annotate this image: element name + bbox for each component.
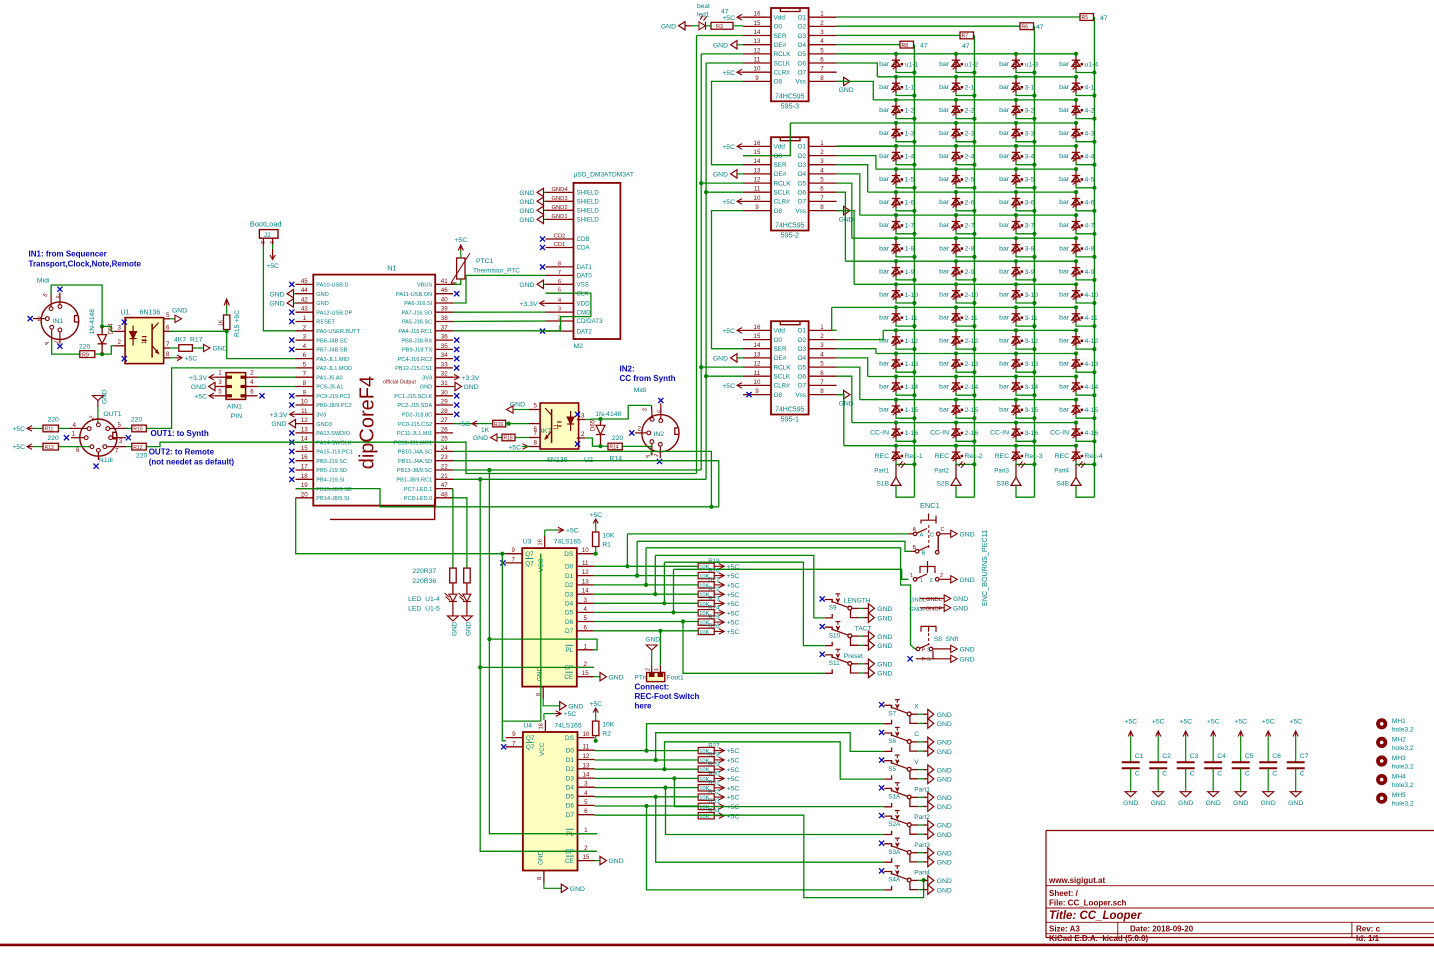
+5C label U2 pin8 [508, 444, 529, 452]
svg-text:28: 28 [441, 408, 448, 415]
resistor R14 220 [601, 435, 652, 462]
svg-text:PA14-SWCLK: PA14-SWCLK [316, 440, 351, 446]
svg-text:3-15: 3-15 [1025, 407, 1039, 414]
svg-text:+5C: +5C [722, 144, 735, 151]
svg-text:GND: GND [877, 615, 892, 622]
svg-text:48: 48 [441, 491, 448, 498]
svg-text:GND: GND [713, 356, 728, 363]
svg-text:R5: R5 [1082, 15, 1089, 21]
svg-text:O2: O2 [797, 153, 806, 160]
svg-text:5: 5 [303, 361, 307, 368]
svg-text:2-15: 2-15 [965, 407, 979, 414]
svg-text:+5C: +5C [194, 393, 207, 400]
wire O7 595-2 to row 10 [837, 211, 855, 285]
label GNDP ENC1 [909, 604, 968, 613]
svg-text:47: 47 [1100, 15, 1108, 22]
LED 3-8 [999, 236, 1036, 259]
switch S1A Part1 [879, 783, 952, 812]
svg-text:GND: GND [519, 208, 534, 215]
no-connect IN1 pin3 [57, 287, 62, 292]
svg-text:PB5-J19.SD: PB5-J19.SD [316, 468, 347, 474]
svg-text:GND: GND [316, 301, 328, 307]
svg-text:CE: CE [565, 858, 574, 865]
svg-text:GND: GND [519, 190, 534, 197]
svg-text:2-1: 2-1 [965, 84, 975, 91]
LED 2-5 [939, 167, 976, 190]
svg-text:+3.3V: +3.3V [462, 375, 480, 382]
connector IN1 MIDI DIN [33, 278, 79, 348]
wire U3 D4 stair up [662, 562, 666, 605]
svg-text:bar: bar [1059, 384, 1070, 391]
svg-text:Thermistor_PTC: Thermistor_PTC [473, 268, 520, 275]
svg-text:O4: O4 [797, 355, 806, 362]
wire U4 D5 [595, 796, 699, 798]
svg-text:29: 29 [441, 399, 448, 406]
svg-text:C7: C7 [1300, 753, 1309, 760]
svg-text:+5C: +5C [1152, 719, 1165, 726]
no-connect AIN1 pin6 [259, 393, 264, 398]
LED U1-4 [408, 583, 457, 616]
svg-text:bar: bar [939, 361, 950, 368]
svg-text:7: 7 [820, 195, 824, 202]
svg-text:bar: bar [999, 338, 1010, 345]
wire bus CP nets [478, 477, 597, 851]
svg-text:+5C: +5C [727, 795, 740, 802]
svg-text:13: 13 [301, 426, 308, 433]
svg-text:O6: O6 [797, 190, 806, 197]
capacitor C5 [1232, 719, 1254, 808]
svg-text:SHIELD: SHIELD [577, 208, 600, 215]
svg-text:35: 35 [441, 343, 448, 350]
svg-text:Q7: Q7 [525, 551, 534, 558]
svg-text:bar: bar [879, 291, 890, 298]
svg-text:15: 15 [301, 445, 308, 452]
svg-text:15: 15 [754, 333, 761, 340]
svg-text:3: 3 [820, 29, 824, 36]
svg-text:C: C [930, 533, 934, 539]
svg-text:GND: GND [877, 671, 892, 678]
svg-text:GND: GND [960, 656, 975, 663]
svg-text:bar: bar [1059, 245, 1070, 252]
svg-text:15: 15 [754, 20, 761, 27]
wire LED row 17 [844, 445, 1076, 447]
+5C label U3 VCC [545, 527, 579, 536]
svg-text:O1: O1 [797, 144, 806, 151]
svg-text:PB1-J8/9.RC1: PB1-J8/9.RC1 [396, 478, 432, 484]
resistor R13 220 [12, 435, 90, 451]
LED 2-4 [939, 144, 976, 167]
svg-text:O5: O5 [797, 364, 806, 371]
text note IN2 [620, 364, 676, 383]
svg-text:4-16: 4-16 [1085, 430, 1099, 437]
switch S6 C [879, 727, 952, 756]
svg-text:OE#: OE# [774, 42, 787, 49]
svg-text:ENC_BOURNS_PEC11: ENC_BOURNS_PEC11 [980, 530, 989, 606]
wire U3 CP attach [585, 666, 594, 668]
svg-text:6: 6 [166, 324, 170, 331]
svg-text:16: 16 [301, 454, 308, 461]
wire O5 595-2 to row 8 [837, 183, 852, 238]
svg-text:3: 3 [218, 379, 222, 386]
mounting hole MH2 [1376, 736, 1414, 752]
optocoupler U2 6N136 [529, 403, 593, 465]
svg-text:43: 43 [301, 306, 308, 313]
svg-text:S1A: S1A [888, 794, 901, 801]
svg-text:bar: bar [939, 176, 950, 183]
capacitor C6 [1259, 719, 1281, 808]
svg-text:Part1: Part1 [874, 467, 889, 474]
svg-text:PA4-J16.RC1: PA4-J16.RC1 [398, 329, 432, 335]
svg-text:D4: D4 [565, 601, 574, 608]
LED 4-13 [1059, 351, 1098, 374]
svg-text:PC2-J15.SDA: PC2-J15.SDA [397, 403, 432, 409]
svg-text:7: 7 [511, 556, 515, 563]
GND label N1 pin42 [269, 299, 295, 308]
GND label Vss 595-1 [837, 390, 854, 407]
svg-text:CP: CP [564, 665, 573, 672]
svg-text:dipCoreF4: dipCoreF4 [356, 376, 378, 469]
svg-text:ENC1: ENC1 [920, 501, 940, 510]
svg-text:CP: CP [565, 849, 574, 856]
LED u1-4 [1059, 52, 1098, 75]
no-connect M2 DAT1 [540, 264, 545, 269]
svg-text:PB3-J19.SC: PB3-J19.SC [316, 459, 347, 465]
svg-text:GND: GND [937, 795, 952, 802]
wire RCLK bus [453, 54, 743, 472]
svg-text:1-14: 1-14 [905, 384, 919, 391]
svg-text:47: 47 [721, 9, 729, 16]
GND label Vss 595-3 [837, 77, 854, 94]
svg-text:1-2: 1-2 [905, 107, 915, 114]
svg-text:6: 6 [820, 186, 824, 193]
wire LED row 12 [883, 329, 1076, 331]
svg-text:10K: 10K [602, 533, 615, 540]
svg-text:D5: D5 [566, 794, 575, 801]
LED 3-2 [999, 98, 1036, 121]
svg-text:DAT1: DAT1 [577, 264, 593, 271]
LED 1-9 [879, 259, 916, 282]
svg-text:hole3,2: hole3,2 [1392, 745, 1414, 752]
svg-text:220: 220 [48, 416, 60, 423]
svg-text:O7: O7 [797, 70, 806, 77]
LED 3-14 [999, 374, 1038, 397]
svg-text:RCLK: RCLK [774, 364, 792, 371]
svg-text:2: 2 [37, 316, 41, 323]
svg-text:D5: D5 [565, 610, 574, 617]
svg-text:1: 1 [72, 431, 76, 438]
svg-text:2-7: 2-7 [965, 223, 975, 230]
switch S11 Preset [820, 649, 893, 678]
wire U3 D6 [594, 621, 698, 623]
svg-text:595-3: 595-3 [781, 102, 799, 111]
svg-text:2: 2 [581, 431, 585, 438]
label ENC1 [920, 501, 940, 510]
svg-text:GND: GND [465, 621, 472, 636]
svg-text:+5C: +5C [1124, 719, 1137, 726]
wire M2 CD/DAT3 to N1 PA5 [453, 320, 546, 323]
wire M2 CMD to N1 PA7 [453, 311, 546, 313]
svg-text:BootLoad: BootLoad [250, 220, 282, 229]
LED 2-6 [939, 190, 976, 213]
wire IN1 pin4 to R9 [52, 341, 80, 355]
LED 4-11 [1059, 305, 1098, 328]
svg-text:+5C: +5C [727, 629, 740, 636]
GND label AIN1 pin3 [191, 382, 215, 391]
no-connect M2 DAT2 [540, 329, 545, 334]
resistor R17 4K7 [170, 337, 204, 352]
svg-text:hole3,2: hole3,2 [1392, 764, 1414, 771]
svg-text:4-14: 4-14 [1085, 384, 1099, 391]
svg-text:220: 220 [612, 435, 624, 442]
svg-text:16: 16 [538, 723, 544, 729]
svg-text:OE#: OE# [774, 355, 787, 362]
svg-text:GND: GND [877, 606, 892, 613]
svg-text:R16: R16 [494, 422, 503, 428]
svg-text:1: 1 [820, 140, 824, 147]
LED 4-9 [1059, 259, 1096, 282]
svg-text:VSS: VSS [577, 282, 589, 289]
svg-text:VCC: VCC [538, 558, 545, 572]
svg-text:bar: bar [939, 314, 950, 321]
svg-text:PC10-J31.MO1: PC10-J31.MO1 [394, 440, 433, 446]
svg-text:bar: bar [939, 199, 950, 206]
svg-text:10: 10 [582, 547, 589, 554]
svg-text:10: 10 [301, 399, 308, 406]
svg-text:U3: U3 [523, 539, 532, 546]
GND label led1 [661, 22, 692, 31]
svg-text:Vdd: Vdd [774, 144, 786, 151]
svg-text:2-10: 2-10 [965, 292, 979, 299]
wire O6 595-2 to row 9 [837, 192, 846, 261]
svg-text:SHIELD: SHIELD [577, 217, 600, 224]
LED 1-14 [879, 374, 918, 397]
svg-text:3-3: 3-3 [1025, 130, 1035, 137]
svg-text:DS: DS [564, 551, 573, 558]
wire U3 D3 [594, 593, 698, 595]
svg-text:5: 5 [166, 312, 170, 319]
svg-text:O0: O0 [774, 153, 783, 160]
svg-text:GND3: GND3 [551, 196, 567, 202]
svg-text:S10: S10 [829, 632, 841, 639]
wire D64 to U1 pin3 [102, 326, 114, 331]
svg-text:C: C [1272, 771, 1277, 778]
svg-text:PA11-USB.ON: PA11-USB.ON [396, 292, 432, 298]
LED 4-15 [1059, 398, 1098, 421]
wire LED row 9 [845, 260, 1076, 262]
wire O7 595-3 to row 2 [837, 81, 874, 100]
svg-text:PA6-J16.SI: PA6-J16.SI [404, 301, 432, 307]
wire U4 D4 [595, 787, 699, 789]
svg-text:Rec-2: Rec-2 [965, 453, 983, 460]
svg-text:bar: bar [879, 222, 890, 229]
svg-text:14: 14 [754, 342, 761, 349]
LED 3-1 [999, 75, 1036, 98]
svg-text:C6: C6 [1272, 753, 1281, 760]
svg-text:GND: GND [937, 721, 952, 728]
svg-text:16: 16 [754, 324, 761, 331]
svg-text:PIN: PIN [231, 413, 242, 420]
svg-text:LED U1-5: LED U1-5 [408, 606, 440, 613]
svg-text:S4B: S4B [1057, 480, 1070, 487]
wire S8 net [646, 548, 915, 649]
svg-text:GND: GND [937, 740, 952, 747]
wire U4 D4 to S2A [663, 786, 884, 835]
wire ENC B net [637, 541, 910, 551]
resistor R1 10K [589, 512, 614, 556]
svg-text:R14: R14 [610, 456, 623, 463]
connector AIN1 PIN [215, 370, 258, 420]
svg-text:SER: SER [774, 33, 788, 40]
svg-text:PA12-USB.DP: PA12-USB.DP [316, 310, 352, 316]
svg-text:12: 12 [582, 569, 589, 576]
svg-text:S2A: S2A [888, 821, 901, 828]
svg-text:D6: D6 [565, 619, 574, 626]
svg-text:GND: GND [519, 282, 534, 289]
svg-text:SER: SER [774, 162, 788, 169]
svg-text:bar: bar [999, 222, 1010, 229]
svg-text:bar: bar [879, 245, 890, 252]
svg-text:O1: O1 [797, 15, 806, 22]
svg-text:REC: REC [995, 453, 1009, 460]
svg-text:Title: CC_Looper: Title: CC_Looper [1049, 910, 1142, 922]
svg-text:+5C: +5C [727, 748, 740, 755]
svg-text:+5C: +5C [727, 573, 740, 580]
LED 4-12 [1059, 328, 1098, 351]
+5C label CLR# 595-2 [722, 199, 743, 206]
svg-text:12: 12 [301, 417, 308, 424]
wire U4 DS [595, 740, 596, 742]
svg-text:6: 6 [583, 624, 587, 631]
svg-text:4-9: 4-9 [1085, 269, 1095, 276]
svg-text:+5C: +5C [1234, 719, 1247, 726]
wire M2 DAT0 to N1 PA6 [453, 275, 546, 303]
wire O7 595-1 to REC row [837, 395, 844, 446]
svg-text:bar: bar [879, 361, 890, 368]
svg-text:CE: CE [564, 674, 573, 681]
svg-text:4-1: 4-1 [1085, 84, 1095, 91]
wire U3 D0 stair up [625, 534, 629, 569]
svg-text:hole3,2: hole3,2 [1392, 782, 1414, 789]
svg-text:X: X [914, 703, 919, 710]
svg-text:9: 9 [303, 389, 307, 396]
svg-text:GND: GND [519, 217, 534, 224]
svg-text:9: 9 [755, 388, 759, 395]
svg-text:bar: bar [999, 84, 1010, 91]
svg-text:+5C: +5C [727, 813, 740, 820]
svg-text:RCLK: RCLK [774, 51, 792, 58]
svg-text:bar: bar [1059, 176, 1070, 183]
svg-text:4: 4 [583, 606, 587, 613]
svg-text:6: 6 [820, 57, 824, 64]
svg-text:74LS165: 74LS165 [554, 723, 581, 730]
svg-text:GND: GND [1151, 800, 1166, 807]
svg-text:11: 11 [301, 408, 308, 415]
svg-text:S9: S9 [829, 605, 837, 612]
svg-text:4: 4 [250, 379, 254, 386]
GND label U2 pin5 [507, 402, 530, 414]
svg-text:O4: O4 [797, 42, 806, 49]
svg-text:GND: GND [937, 832, 952, 839]
svg-text:4-12: 4-12 [1085, 338, 1099, 345]
svg-text:O5: O5 [797, 180, 806, 187]
svg-text:14: 14 [582, 588, 589, 595]
svg-text:GND: GND [937, 887, 952, 894]
svg-text:bar: bar [879, 199, 890, 206]
svg-text:34: 34 [441, 352, 448, 359]
svg-text:S: S [927, 657, 931, 663]
svg-text:bar: bar [999, 291, 1010, 298]
svg-text:+5C: +5C [589, 701, 602, 708]
svg-text:31: 31 [441, 380, 448, 387]
svg-text:1: 1 [583, 643, 587, 650]
svg-text:1-1: 1-1 [905, 84, 915, 91]
wire vertical through U3 [540, 554, 542, 721]
svg-text:U4: U4 [523, 723, 532, 730]
svg-text:R12: R12 [133, 445, 142, 451]
svg-text:LED U1-4: LED U1-4 [408, 596, 440, 603]
svg-text:R7: R7 [962, 34, 969, 40]
svg-text:bar: bar [999, 176, 1010, 183]
wire U2 pin3 to D65 [585, 418, 600, 421]
wire O6 595-3 to row 1 [837, 63, 878, 77]
svg-text:Part2: Part2 [934, 467, 949, 474]
svg-text:µSD_DM3ATDM3AT: µSD_DM3ATDM3AT [574, 171, 634, 178]
svg-text:bar: bar [1059, 268, 1070, 275]
svg-text:GND: GND [473, 435, 488, 442]
thermistor PTC1 [451, 253, 520, 283]
svg-text:O3: O3 [797, 33, 806, 40]
svg-text:220: 220 [48, 435, 60, 442]
svg-text:Part3: Part3 [994, 467, 1009, 474]
wire U1 pin6 to N1 PA3 [170, 329, 296, 358]
svg-text:GND: GND [1123, 800, 1138, 807]
svg-text:MH5: MH5 [1392, 792, 1406, 799]
svg-text:Q7: Q7 [525, 560, 534, 567]
wire U3 D2 stair up [644, 548, 648, 587]
+5C label Vdd 595-2 [722, 144, 743, 151]
svg-text:P: P [922, 657, 926, 663]
svg-text:U1: U1 [121, 310, 130, 317]
LED 3-6 [999, 190, 1036, 213]
wire to U4 Q7 [502, 721, 506, 741]
+5C label CLR# 595-1 [722, 383, 743, 390]
LED u1-3 [999, 52, 1038, 75]
svg-text:R18: R18 [504, 436, 513, 442]
svg-text:4: 4 [303, 343, 307, 350]
svg-text:74HC595: 74HC595 [775, 93, 805, 100]
wire U4 D7 to Part4 net [698, 815, 926, 897]
svg-text:GND: GND [661, 23, 676, 30]
svg-text:46: 46 [441, 287, 448, 294]
LED 1-13 [879, 351, 918, 374]
wire LED row 15 [860, 399, 1076, 401]
LED 1-15 [879, 398, 918, 421]
svg-text:D2: D2 [565, 582, 574, 589]
switch S5 V [879, 755, 952, 784]
LED Rec-4 [1055, 444, 1103, 467]
mounting hole MH4 [1376, 774, 1414, 790]
svg-text:C: C [1135, 771, 1140, 778]
svg-text:2-2: 2-2 [965, 107, 975, 114]
LED 3-15 [999, 398, 1038, 421]
svg-text:+5C: +5C [266, 263, 279, 270]
LED 2-9 [939, 259, 976, 282]
svg-text:2-14: 2-14 [965, 384, 979, 391]
svg-text:D7: D7 [566, 812, 575, 819]
svg-text:Part4: Part4 [1054, 467, 1069, 474]
GND label U4 CE [595, 856, 624, 865]
svg-text:11: 11 [754, 57, 761, 64]
